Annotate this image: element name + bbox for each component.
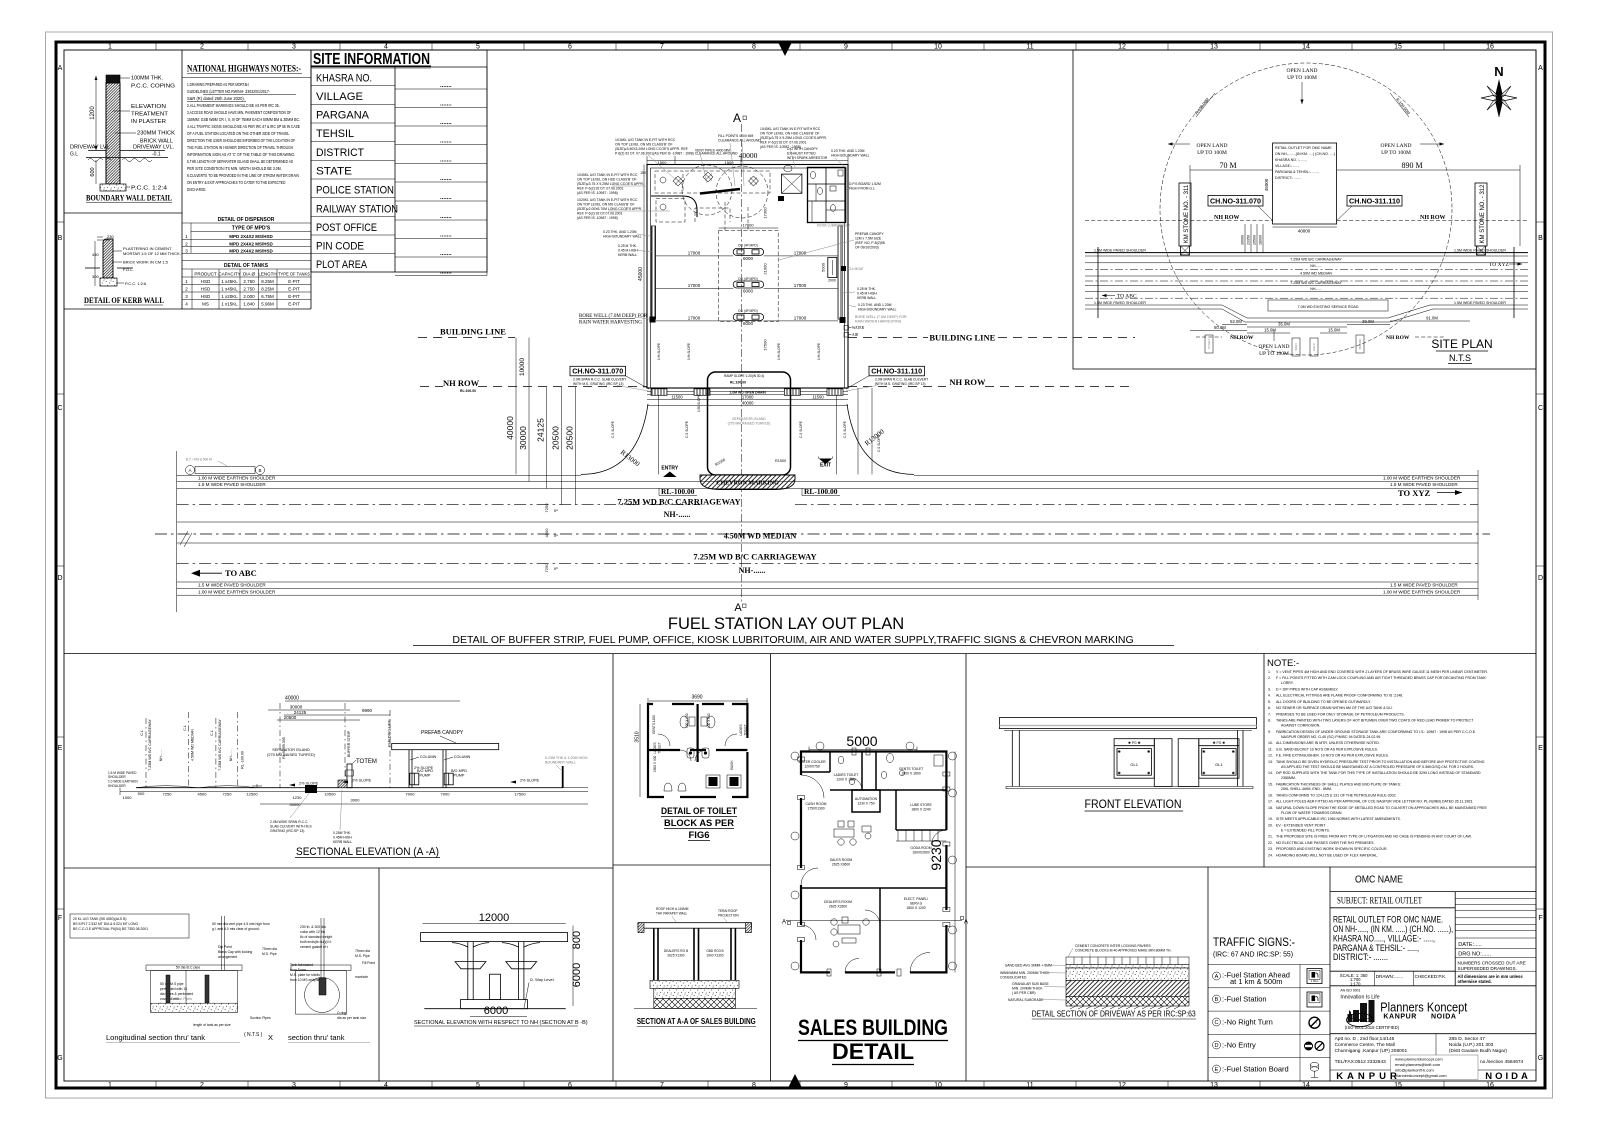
svg-text:BORE WELL (7.0M DEEP) FOR: BORE WELL (7.0M DEEP) FOR: [855, 315, 907, 319]
svg-text:DATE:.....: DATE:.....: [1458, 942, 1482, 948]
svg-text:BOUNDARY WALL DETAIL: BOUNDARY WALL DETAIL: [86, 193, 172, 203]
svg-text:MPD 2X4X2 MS/HSD: MPD 2X4X2 MS/HSD: [229, 242, 273, 247]
45000 left dim: [643, 165, 645, 389]
svg-text:1:% SLOPE: 1:% SLOPE: [817, 343, 821, 360]
svg-text:35.0M: 35.0M: [1278, 322, 1290, 327]
note box: [70, 914, 189, 938]
svg-text:DU (4P MPD): DU (4P MPD): [738, 277, 757, 281]
svg-text:ALL DOORS OF BUILDING TO BE OP: ALL DOORS OF BUILDING TO BE OPENED OUTWA…: [1276, 700, 1371, 704]
left vertical dims: [516, 338, 575, 505]
longitudinal tank section: [146, 916, 242, 1012]
svg-text:1750X1300: 1750X1300: [807, 807, 824, 811]
top dim 40000: [647, 160, 848, 162]
svg-text:(SIZE)≥3.50X3.20M LONG CCOE'S: (SIZE)≥3.50X3.20M LONG CCOE'S APPR. REF.: [615, 147, 688, 151]
svg-text:SAND BED AVG 30MM +-5MM: SAND BED AVG 30MM +-5MM: [1005, 964, 1052, 968]
svg-text:.......: .......: [440, 270, 452, 276]
svg-text:AGAINST CORROSION.: AGAINST CORROSION.: [1281, 724, 1320, 728]
svg-text:TYPE OF MPD'S: TYPE OF MPD'S: [232, 226, 271, 232]
svg-text:POST OFFICE: POST OFFICE: [316, 222, 377, 234]
svg-text:A: A: [782, 920, 786, 926]
svg-text:1.5 M WIDE PAVED SHOULDER: 1.5 M WIDE PAVED SHOULDER: [1390, 583, 1458, 588]
svg-text:1:50 SLOPE: 1:50 SLOPE: [697, 394, 701, 412]
svg-text:17000: 17000: [688, 283, 701, 288]
svg-text:1230: 1230: [293, 795, 303, 800]
100m radius dashed circle: [1160, 63, 1452, 355]
wbm layer: [1066, 968, 1189, 980]
svg-text:otherwise stated.: otherwise stated.: [1458, 979, 1492, 984]
svg-text:1230 X 750: 1230 X 750: [857, 802, 874, 806]
svg-text:UP TO 100M: UP TO 100M: [1259, 351, 1289, 357]
svg-text:NH ROW: NH ROW: [443, 378, 480, 388]
svg-text:OMC NAME: OMC NAME: [1355, 875, 1403, 886]
svg-text:from 10 MS endplates: from 10 MS endplates: [290, 978, 323, 982]
svg-text:DRIVEWAY LVL.: DRIVEWAY LVL.: [133, 145, 175, 151]
svg-text:SEPARATOR ISLAND: SEPARATOR ISLAND: [732, 417, 766, 421]
svg-text:KANPUR: KANPUR: [1336, 1071, 1401, 1082]
svg-text:15: 15: [1394, 44, 1402, 51]
svg-text:.......: .......: [440, 195, 452, 201]
granular sub-base: [1066, 980, 1189, 996]
svg-text:D: D: [1215, 1043, 1219, 1049]
svg-text:2350MM.: 2350MM.: [1281, 776, 1296, 780]
svg-text:UP TO 100M: UP TO 100M: [1287, 75, 1317, 81]
svg-text:11500: 11500: [671, 395, 683, 400]
toilet fixtures: [838, 756, 844, 764]
svg-text:4.: 4.: [1268, 694, 1271, 698]
svg-text:IP: IP: [554, 566, 558, 571]
svg-text:N: N: [1494, 64, 1503, 79]
fixtures: [680, 716, 688, 728]
scattered slope marks: [611, 343, 881, 452]
svg-text:.......: .......: [440, 83, 452, 89]
svg-text:8: 8: [752, 44, 756, 51]
svg-text:UP TO 100M: UP TO 100M: [1381, 150, 1411, 156]
roof slab: [638, 923, 751, 929]
svg-text:80.0M: 80.0M: [1214, 325, 1226, 330]
svg-text:7000: 7000: [406, 791, 416, 796]
svg-text:OPEN LAND: OPEN LAND: [1196, 143, 1227, 149]
svg-text:30000: 30000: [1241, 235, 1245, 245]
svg-text:SLAB CULVERT WITH M.S: SLAB CULVERT WITH M.S: [270, 825, 312, 829]
svg-text:7.25M WD B/C CARRIAGEWAY: 7.25M WD B/C CARRIAGEWAY: [693, 552, 816, 562]
svg-text:P.C.C. COPING: P.C.C. COPING: [131, 84, 176, 90]
svg-text:PROJECTION: PROJECTION: [718, 914, 739, 918]
svg-text:Planners Koncept: Planners Koncept: [1380, 1001, 1467, 1015]
svg-text:3.: 3.: [1268, 688, 1271, 692]
base slab: [1006, 786, 1253, 788]
svg-text:1 x45KL: 1 x45KL: [221, 279, 238, 284]
svg-text:B.T. / KM & 500 M: B.T. / KM & 500 M: [186, 458, 212, 462]
svg-text:F: F: [58, 915, 62, 922]
entry/exit drive edges: [658, 395, 660, 474]
svg-text:M.S. plate for shells: M.S. plate for shells: [290, 973, 320, 977]
svg-text:DIA Ø: DIA Ø: [243, 272, 256, 277]
svg-text:14: 14: [1302, 1082, 1310, 1089]
svg-text:NH-.....: NH-.....: [1310, 264, 1321, 268]
svg-text:NH ROW: NH ROW: [1386, 335, 1410, 341]
internal walls: [801, 752, 946, 973]
plot bottom culverts: [647, 391, 848, 393]
svg-text:KERB WALL: KERB WALL: [333, 840, 352, 844]
svg-text:40000: 40000: [285, 696, 299, 702]
svg-text:(IRC: 67 AND IRC:SP: 55): (IRC: 67 AND IRC:SP: 55): [1213, 952, 1293, 959]
svg-text:(AS PER IS -10987 : 1998): (AS PER IS -10987 : 1998): [577, 216, 618, 220]
svg-text:LUBE STORE: LUBE STORE: [910, 803, 932, 807]
svg-text:11.: 11.: [1268, 747, 1273, 751]
svg-text:7250: 7250: [163, 791, 173, 796]
svg-text:ALL DIMENSIONS ARE IN MTR. UNL: ALL DIMENSIONS ARE IN MTR. UNLESS OTHERW…: [1276, 741, 1380, 745]
svg-text:D: D: [57, 575, 62, 582]
svg-text:6000: 6000: [484, 1005, 508, 1017]
svg-text:2% SLOPE: 2% SLOPE: [352, 779, 372, 783]
svg-text:S.B. SAND BUCKET 10 NO'S OR AS: S.B. SAND BUCKET 10 NO'S OR AS PER EXPLO…: [1276, 747, 1378, 751]
svg-text:50 mm dia vent pipe 4.5 m: 50 mm dia vent pipe 4.5 mts high from: [212, 922, 270, 926]
svg-text:6000: 6000: [743, 256, 754, 261]
svg-text:TREATMENT: TREATMENT: [131, 112, 168, 118]
svg-text:5.96M: 5.96M: [261, 302, 274, 307]
svg-text:REF. P-6(2) 92 DT.07.06.2001: REF. P-6(2) 92 DT.07.06.2001: [577, 212, 623, 216]
svg-text:7: 7: [660, 44, 664, 51]
svg-text:11: 11: [1026, 44, 1033, 51]
svg-text:NO SEWER OR SURFACE DRAIN WITH: NO SEWER OR SURFACE DRAIN WITHIN 6M OF T…: [1276, 706, 1393, 710]
row E: [1213, 1065, 1221, 1073]
slope labels: [299, 766, 540, 786]
svg-text:16.: 16.: [1268, 794, 1273, 798]
road band: [1085, 247, 1528, 322]
svg-text:PREFAB CANOPY: PREFAB CANOPY: [855, 232, 884, 236]
svg-text:1: 1: [108, 1082, 112, 1089]
svg-text:2625 X1300: 2625 X1300: [667, 954, 684, 958]
svg-text:TANK SHOULD BE GIVEN HYDROLIC: TANK SHOULD BE GIVEN HYDROLIC PRESSURE T…: [1276, 760, 1485, 764]
svg-text:ROOF HIGH & 115MM: ROOF HIGH & 115MM: [656, 907, 689, 911]
svg-text:11: 11: [1026, 1082, 1033, 1089]
svg-text:g.l. and 4.0 mts clear of g: g.l. and 4.0 mts clear of ground.: [212, 927, 260, 931]
traffic signs table: [1207, 867, 1209, 1081]
svg-text:9990: 9990: [362, 708, 373, 713]
svg-text:NOIDA: NOIDA: [1431, 1014, 1457, 1021]
svg-text:2: 2: [200, 1082, 204, 1089]
svg-text:www.plannerskoncept.com: www.plannerskoncept.com: [1395, 1057, 1443, 1062]
svg-text:SALES BUILDING: SALES BUILDING: [798, 1015, 948, 1040]
svg-text:TOILET: TOILET: [1207, 339, 1211, 350]
svg-text:LADIES: LADIES: [653, 742, 657, 753]
svg-text:15: 15: [1394, 1082, 1402, 1089]
svg-text:NATURAL SUBGRADE: NATURAL SUBGRADE: [1008, 998, 1044, 1002]
north arrow: [1481, 64, 1517, 117]
svg-text:1.00 M WIDE EARTHEN SHOULDER: 1.00 M WIDE EARTHEN SHOULDER: [198, 475, 276, 480]
dim 600: [95, 160, 97, 184]
svg-text:10: 10: [934, 44, 942, 51]
svg-text:GL1: GL1: [1130, 762, 1138, 767]
svg-text:1.00 M WIDE EARTHEN SHOULDER: 1.00 M WIDE EARTHEN SHOULDER: [1383, 475, 1461, 480]
svg-text:WITH M.S. GRATING (IRC:SP 13): WITH M.S. GRATING (IRC:SP 13): [875, 382, 925, 386]
svg-text:EV - EXTENDED VENT POINT: EV - EXTENDED VENT POINT: [1276, 823, 1326, 827]
svg-text:TO ABC: TO ABC: [225, 568, 257, 578]
svg-text:8.25M: 8.25M: [261, 279, 274, 284]
svg-text:SECTIONAL ELEVATION WITH RESPE: SECTIONAL ELEVATION WITH RESPECT TO NH (…: [414, 1020, 588, 1026]
svg-text:1.840: 1.840: [243, 302, 255, 307]
door arcs: [680, 750, 691, 761]
svg-text:6: 6: [568, 44, 572, 51]
svg-text:CLEARANCE ALL AROUND: CLEARANCE ALL AROUND: [718, 139, 761, 143]
outer walls: [648, 704, 747, 797]
svg-text:OF A FUEL STATION LOCATED ON T: OF A FUEL STATION LOCATED ON THE OTHER S…: [187, 131, 290, 136]
svg-text:BUILDING LINE: BUILDING LINE: [388, 719, 392, 747]
svg-text:1.5 M WIDE PAVED SHOULDER: 1.5 M WIDE PAVED SHOULDER: [1390, 482, 1458, 487]
svg-text:150: 150: [640, 171, 646, 175]
svg-text:A: A: [734, 602, 742, 614]
svg-text:.......: .......: [440, 139, 452, 145]
svg-text:FIG6: FIG6: [688, 830, 709, 841]
svg-text:✺ PG ✺: ✺ PG ✺: [1213, 741, 1226, 745]
svg-text:MS: MS: [202, 302, 209, 307]
svg-text:17000: 17000: [742, 223, 754, 228]
svg-text:PARGANA: PARGANA: [316, 110, 370, 122]
foundation bands: [650, 980, 739, 988]
boundary wall detail: wall hatch: [106, 75, 120, 83]
svg-text:DISTRICT:- .......: DISTRICT:- .......: [1275, 176, 1301, 180]
svg-text:THK PARAPET WALL: THK PARAPET WALL: [656, 912, 688, 916]
svg-text:150MM: GSB WBM CR I, II, III: 150MM: GSB WBM CR I, II, III OF 75MM EAC…: [187, 117, 300, 122]
vertical dim cluster below plot: [1244, 224, 1246, 253]
svg-text:DISCHARGE.: DISCHARGE.: [187, 187, 206, 192]
svg-text:ON NH-.......,(IN KM. ....) (C: ON NH-.......,(IN KM. ....) (CH.NO. ....…: [1275, 152, 1335, 156]
svg-text:2: 2: [200, 44, 204, 51]
svg-text:5.THE LENGTH OF SEPARATER ISLA: 5.THE LENGTH OF SEPARATER ISLAND SHALL B…: [187, 159, 293, 164]
svg-text:6000: 6000: [743, 321, 754, 326]
svg-text:(275 MM RAISED TURFED): (275 MM RAISED TURFED): [728, 422, 771, 426]
svg-text:5: 5: [476, 1082, 480, 1089]
svg-text:13.: 13.: [1268, 760, 1273, 764]
svg-text:22.: 22.: [1268, 841, 1273, 845]
svg-text:0.23 THK. AND 1.20M: 0.23 THK. AND 1.20M: [603, 230, 637, 234]
svg-text:plannerskoncept@gmail.com: plannerskoncept@gmail.com: [1395, 1073, 1447, 1078]
svg-text:17300: 17300: [763, 207, 768, 219]
svg-text:NUMBERS CROSSED OUT ARE: NUMBERS CROSSED OUT ARE: [1458, 961, 1526, 966]
svg-text:2% SLOPE: 2% SLOPE: [299, 782, 319, 786]
svg-text:DETAIL SECTION OF DRIVEWAY AS: DETAIL SECTION OF DRIVEWAY AS PER IRC:SP…: [1032, 1010, 1196, 1019]
svg-text:Innovation Is Life: Innovation Is Life: [1340, 995, 1379, 1001]
row B: [1213, 995, 1221, 1003]
svg-text:NAGPUR ORDER NO. G-40 (SC) P/M: NAGPUR ORDER NO. G-40 (SC) P/MISC 94 DAT…: [1281, 735, 1381, 739]
svg-text:PREMISES TO BE USED FOR ONLY S: PREMISES TO BE USED FOR ONLY STORAGE OF …: [1276, 713, 1405, 717]
svg-text:ON TOP LEVEL ON MS CLASS'B' OF: ON TOP LEVEL ON MS CLASS'B' OF: [577, 203, 635, 207]
svg-text:COLUMN: COLUMN: [420, 755, 437, 759]
svg-text:WBM/WMM MIN. 250MM THICK: WBM/WMM MIN. 250MM THICK: [1000, 971, 1050, 975]
svg-text:KERB WALL: KERB WALL: [857, 296, 876, 300]
svg-text:THE PROPOSED SITE IS FREE FROM: THE PROPOSED SITE IS FREE FROM ANY TYPE …: [1276, 835, 1472, 839]
svg-text:RETAIL OUTLET FOR OMC NAME: RETAIL OUTLET FOR OMC NAME: [1275, 146, 1332, 150]
svg-text:TOTEM: TOTEM: [356, 759, 377, 765]
svg-text:DRAWN:.......: DRAWN:.......: [1376, 974, 1403, 979]
svg-text:1.DRAWING PREPARED AS PER MORT: 1.DRAWING PREPARED AS PER MORT&H: [187, 82, 249, 87]
shoulder texts: [198, 475, 1461, 594]
walls: [654, 928, 736, 980]
svg-text:45000: 45000: [1264, 178, 1269, 191]
svg-text:S&R (R) dated 26th June 2020).: S&R (R) dated 26th June 2020).: [187, 96, 245, 101]
svg-text:C: C: [57, 405, 62, 412]
svg-text:50 dia M.S pipe: 50 dia M.S pipe: [160, 982, 184, 986]
svg-text:1.0 WIDE EARTHEN: 1.0 WIDE EARTHEN: [108, 780, 138, 784]
svg-text:(275 MM RAISED TURFED): (275 MM RAISED TURFED): [267, 753, 316, 757]
svg-text:17000: 17000: [742, 395, 754, 400]
svg-text:DETAIL OF TANKS: DETAIL OF TANKS: [224, 263, 269, 269]
svg-text:12.: 12.: [1268, 754, 1273, 758]
svg-text:1.5M WIDE PAVED SHOULDER: 1.5M WIDE PAVED SHOULDER: [1094, 249, 1146, 253]
svg-text:collar with 12 thk: collar with 12 thk: [300, 930, 326, 934]
svg-text:17.: 17.: [1268, 800, 1273, 804]
svg-text:20.: 20.: [1268, 823, 1273, 827]
svg-text:NH ROW: NH ROW: [1230, 335, 1254, 341]
dim 1200: [95, 76, 97, 150]
svg-text:D: D: [1538, 575, 1543, 582]
svg-text:OF 09/10/2003): OF 09/10/2003): [855, 246, 879, 250]
svg-text:19.: 19.: [1268, 817, 1273, 821]
svg-text:DISTRICT: DISTRICT: [316, 147, 364, 159]
DG set: [784, 166, 792, 171]
svg-text:20500: 20500: [1253, 235, 1257, 245]
svg-text:SUPERSEDED DRAWINGS.: SUPERSEDED DRAWINGS.: [1458, 966, 1517, 971]
bottom dim line: [120, 791, 588, 793]
svg-text:1200X750: 1200X750: [804, 765, 820, 769]
svg-text:HSD: HSD: [201, 279, 211, 284]
svg-text:SHOULDER: SHOULDER: [108, 775, 126, 779]
svg-text:DIRECTION THE USER SHOULD BE I: DIRECTION THE USER SHOULD BE INFORMED OF…: [187, 138, 295, 143]
svg-text:ON TOP LEVEL ON HSD CLASS'B' O: ON TOP LEVEL ON HSD CLASS'B' OF: [760, 132, 820, 136]
svg-text:A: A: [58, 65, 63, 72]
svg-text:2.0M SPAN R.C.C. SLAB CULVERT: 2.0M SPAN R.C.C. SLAB CULVERT: [875, 378, 928, 382]
svg-text:8.: 8.: [1268, 719, 1271, 723]
svg-text:8x of standard weight: 8x of standard weight: [300, 935, 332, 939]
svg-text:2.000: 2.000: [243, 294, 255, 299]
svg-text:NH-......: NH-......: [229, 749, 233, 761]
svg-text:at 1 km & 500m: at 1 km & 500m: [1230, 977, 1283, 986]
svg-text:6.CULVERTS TO BE PROVIDED IN T: 6.CULVERTS TO BE PROVIDED IN THE LINE OF…: [187, 173, 299, 178]
svg-text:8: 8: [752, 1082, 756, 1089]
svg-text:1.: 1.: [1268, 670, 1271, 674]
svg-text:1: 1: [108, 44, 112, 51]
km stones: [1179, 183, 1191, 246]
svg-text:HOARDING BOARD WILL NOT BE USE: HOARDING BOARD WILL NOT BE USED OF FLEX …: [1276, 853, 1378, 857]
svg-text:C.L: C.L: [183, 725, 187, 731]
chevron hump: [338, 780, 347, 788]
svg-text:12: 12: [1118, 44, 1126, 51]
svg-text:WASH: WASH: [730, 760, 734, 770]
svg-text:V = VENT PIPES 4M HIGH AND END: V = VENT PIPES 4M HIGH AND END COVERED W…: [1276, 670, 1488, 674]
svg-text:CLU BOAT: CLU BOAT: [848, 267, 864, 271]
plot bottom dim 40000: [1273, 226, 1337, 228]
svg-text:18000: 18000: [1259, 235, 1263, 245]
svg-text:2000: 2000: [828, 279, 836, 283]
svg-text:MORTAR 1:5 OF 12 MM THICK.: MORTAR 1:5 OF 12 MM THICK.: [123, 251, 181, 256]
svg-text:7.25M WD B/C CARRIAGEWAY: 7.25M WD B/C CARRIAGEWAY: [617, 497, 740, 507]
svg-text:17000: 17000: [688, 250, 701, 255]
plot boundary walls: [647, 165, 848, 389]
svg-text:1X20KL U/G TANK IN E-PIT WIT: 1X20KL U/G TANK IN E-PIT WITH RCC: [577, 198, 638, 202]
svg-text:1:% SLOPE: 1:% SLOPE: [687, 343, 691, 360]
side labels: [603, 230, 897, 312]
svg-text:Aptt no. D , 2nd floor,14/145: Aptt no. D , 2nd floor,14/145: [1335, 1036, 1395, 1042]
svg-text:WITH M.S. GRATING (IRC:SP 13): WITH M.S. GRATING (IRC:SP 13): [573, 382, 623, 386]
svg-text:O ring: O ring: [337, 1011, 346, 1015]
svg-text:NH-......: NH-......: [159, 749, 163, 761]
svg-text:NH-......: NH-......: [664, 510, 691, 519]
desks in dealers room: [831, 917, 869, 947]
chevron cap: [700, 475, 795, 490]
svg-text:GRANULAR SUB BASE: GRANULAR SUB BASE: [1012, 982, 1049, 986]
svg-text:GUIDELINES (LETTER NO.RW/NH- 3: GUIDELINES (LETTER NO.RW/NH- 33032/01/20…: [187, 89, 270, 94]
svg-text:.......: .......: [440, 102, 452, 108]
svg-text:E: E: [1215, 1067, 1219, 1073]
radial marks: [1196, 93, 1215, 117]
desks/furniture in sales room: [834, 821, 871, 845]
detail block frame: [64, 308, 311, 310]
svg-text:TYPE OF TANKS: TYPE OF TANKS: [278, 272, 310, 277]
svg-text:2% SLOPE: 2% SLOPE: [414, 766, 434, 770]
svg-text:NH ROW: NH ROW: [1420, 215, 1446, 221]
svg-text:DU (4P MPD): DU (4P MPD): [738, 244, 757, 248]
svg-text:23.: 23.: [1268, 847, 1273, 851]
white overlay box with web ids: [1391, 1055, 1478, 1079]
svg-text:Brass Cap with locking: Brass Cap with locking: [218, 950, 252, 954]
svg-text:DIP ROD SUPPLIED WITH THE TANK: DIP ROD SUPPLIED WITH THE TANK FOR THIS …: [1276, 771, 1481, 775]
svg-text:.......: .......: [440, 214, 452, 220]
svg-text:7.25M WD B/C CARRIAGEWAY: 7.25M WD B/C CARRIAGEWAY: [1290, 281, 1342, 285]
pavers row: [1066, 957, 1189, 965]
svg-text:16: 16: [1486, 1082, 1494, 1089]
svg-text:(SIZE)≥3.75 X 9.25M LONG CCOE': (SIZE)≥3.75 X 9.25M LONG CCOE'S APPR.: [760, 136, 827, 140]
svg-text:30000: 30000: [290, 705, 303, 710]
svg-text:20KL SHELL-6MM, END - 8MM.: 20KL SHELL-6MM, END - 8MM.: [1281, 787, 1332, 791]
svg-text:(Distt Gautam Budh Nagar): (Distt Gautam Budh Nagar): [1449, 1048, 1508, 1054]
svg-text:TEL/FAX:0512 2332843: TEL/FAX:0512 2332843: [1335, 1059, 1387, 1065]
section line A-A: [740, 124, 742, 604]
svg-text:E-PIT: E-PIT: [288, 302, 300, 307]
svg-text:230MM THICK: 230MM THICK: [137, 131, 175, 137]
labels: [120, 77, 130, 79]
svg-text:SHOULDER: SHOULDER: [108, 784, 126, 788]
svg-text:DETAIL OF DISPENSOR: DETAIL OF DISPENSOR: [218, 217, 275, 223]
road humps: [136, 786, 256, 788]
room labels: [798, 760, 932, 910]
svg-text:Suction Pipes: Suction Pipes: [171, 997, 192, 1001]
A / B circles on left: [186, 466, 195, 475]
manifold: [700, 189, 740, 194]
svg-text:TO XYZ: TO XYZ: [1489, 262, 1510, 268]
svg-text:100MM THK.: 100MM THK.: [131, 76, 163, 82]
svg-text:RAILWAY STATION: RAILWAY STATION: [316, 204, 398, 216]
svg-text:2625 X3600: 2625 X3600: [832, 863, 850, 867]
svg-text:B: B: [258, 468, 261, 473]
svg-text:KHASRA NO.: KHASRA NO.: [316, 73, 372, 85]
svg-text:SECTIONAL ELEVATION (A -A): SECTIONAL ELEVATION (A -A): [296, 846, 439, 858]
svg-text:1 0km: 1 0km: [1311, 979, 1319, 983]
svg-text:GRATING (IRC:SP 13): GRATING (IRC:SP 13): [270, 829, 304, 833]
svg-text:(SIZE)≥3.75 X 9.25M LONG CCOE': (SIZE)≥3.75 X 9.25M LONG CCOE'S APPR.: [577, 182, 644, 186]
svg-text:SERV.G: SERV.G: [910, 902, 923, 906]
sand bed: [1066, 965, 1189, 969]
svg-text:SIGN: SIGN: [1294, 343, 1298, 350]
svg-text:CAPACITY: CAPACITY: [218, 272, 240, 277]
svg-text:E = EXTENDED FILL POINTS.: E = EXTENDED FILL POINTS.: [1281, 828, 1330, 832]
svg-text:230: 230: [107, 234, 114, 239]
svg-text:C.S SLOPE: C.S SLOPE: [877, 435, 881, 452]
row A: [1213, 972, 1221, 980]
svg-text:RAIN WATER HARVESTING: RAIN WATER HARVESTING: [855, 320, 902, 324]
svg-text:C: C: [1538, 405, 1543, 412]
svg-text:R1500: R1500: [775, 459, 786, 463]
svg-text:( AS PER CBR): ( AS PER CBR): [1012, 991, 1036, 995]
